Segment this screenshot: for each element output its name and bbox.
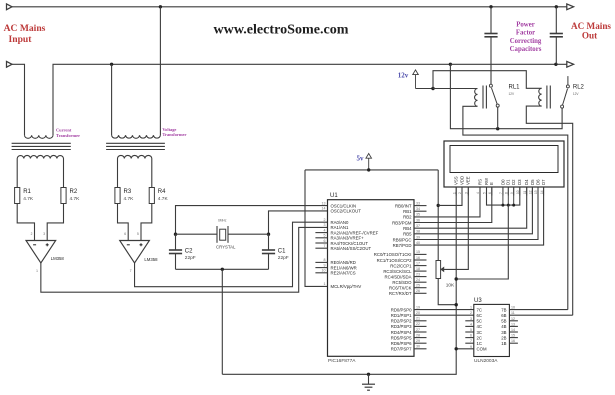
svg-text:OSC1/CLKIN: OSC1/CLKIN: [331, 203, 357, 208]
svg-text:AC Mains: AC Mains: [571, 21, 611, 31]
svg-text:19: 19: [416, 305, 420, 309]
svg-text:RB6/PGC: RB6/PGC: [393, 237, 412, 242]
power symbol 12v: [413, 70, 419, 75]
svg-text:6C: 6C: [477, 313, 483, 318]
wire: RB5 to LCD D5: [414, 187, 532, 234]
U1 pin 7 RA5/AN4/SS/C2OUT: [315, 247, 327, 249]
svg-text:22pF: 22pF: [278, 255, 289, 261]
svg-text:RD7/PSP7: RD7/PSP7: [391, 347, 412, 352]
U1 pin 24 RC5/SDO: [414, 281, 427, 283]
LCD module LM016L body: [444, 141, 564, 187]
wire: voltage transformer primary left drop: [111, 64, 113, 135]
U3 pin 12 5B: [509, 320, 518, 322]
junction ground vertical / preset bottom: [455, 303, 458, 306]
wire: RL2 fixed contact stub: [567, 76, 569, 85]
LCD pin 8 D1: [507, 187, 509, 196]
U1 pin 26 RC7/RX/DT: [414, 292, 427, 294]
svg-text:14: 14: [511, 328, 515, 332]
transformer TR2 core: [106, 142, 165, 144]
svg-text:Power: Power: [516, 21, 535, 28]
op-amp U2:A LM358: [26, 241, 56, 264]
wire: R2 bottom to op-amp U2:A non-inverting input: [47, 204, 63, 241]
wire: C3 bottom to RL1 fixed contact: [490, 37, 492, 85]
svg-text:11: 11: [523, 190, 527, 194]
svg-text:6B: 6B: [501, 313, 506, 318]
LCD pin 5 RW: [486, 187, 488, 196]
U3 pin 13 4B: [509, 325, 518, 327]
svg-text:14: 14: [540, 190, 544, 194]
junction neutral rail / C4 bottom: [554, 63, 557, 66]
svg-text:4.7K: 4.7K: [23, 196, 34, 202]
wire: RD1 to ULN2003A 6C: [414, 314, 474, 316]
svg-text:RC7/RX/DT: RC7/RX/DT: [389, 291, 412, 296]
U1 pin 17 RC2/CCP1: [414, 265, 427, 267]
svg-text:40: 40: [416, 241, 420, 245]
LCD pin 1 VSS: [455, 187, 457, 196]
svg-text:28: 28: [416, 333, 420, 337]
wire: RD0 to ULN2003A 7C: [414, 309, 474, 311]
wire: crystal ground drop to bottom rail: [221, 269, 223, 374]
junction 5v node: [367, 168, 370, 171]
svg-text:12V: 12V: [509, 92, 516, 96]
svg-text:7: 7: [130, 269, 132, 273]
U1 pin 28 RD5/PSP5: [414, 337, 427, 339]
svg-text:12: 12: [511, 317, 515, 321]
svg-text:RC6/TX/CK: RC6/TX/CK: [389, 286, 412, 291]
svg-text:RC5/SDO: RC5/SDO: [392, 280, 412, 285]
wire: crystal right lead: [228, 233, 268, 235]
svg-text:7B: 7B: [501, 307, 506, 312]
wire: strap descent to ground: [456, 205, 508, 279]
svg-text:30: 30: [416, 345, 420, 349]
svg-text:1B: 1B: [501, 341, 506, 346]
LCD pin 3 VEE: [467, 187, 469, 196]
svg-text:33: 33: [416, 201, 420, 205]
relay RL2 coil: [539, 88, 542, 106]
U1 pin 21 RD2/PSP2: [414, 320, 427, 322]
svg-text:VDD: VDD: [459, 176, 464, 185]
svg-text:RC0/T1OSO/T1CKI: RC0/T1OSO/T1CKI: [374, 252, 412, 257]
wire: OSC2 (PIC pin14) to crystal right / C1: [269, 211, 328, 234]
U1 pin 18 RC3/SCK/SCL: [414, 270, 427, 272]
wire: AC live top rail: [12, 6, 567, 8]
svg-text:Input: Input: [9, 34, 33, 45]
svg-text:24: 24: [416, 278, 420, 282]
svg-text:PIC16F877A: PIC16F877A: [328, 358, 356, 364]
capacitor C1 22pF: [268, 234, 270, 250]
svg-text:11: 11: [511, 311, 515, 315]
transformer TR1 (current transformer) primary: [25, 135, 53, 138]
svg-text:15: 15: [416, 250, 420, 254]
wire: RL1 coil drive to ULN2003A 7B: [463, 106, 568, 309]
svg-text:5: 5: [324, 234, 326, 238]
wire: 12v feed: [416, 88, 434, 90]
svg-text:2: 2: [458, 192, 462, 194]
input terminal T2 (AC neutral): [7, 61, 13, 67]
svg-text:E: E: [489, 182, 494, 185]
svg-text:5C: 5C: [477, 319, 483, 324]
svg-text:4.7K: 4.7K: [124, 196, 135, 202]
wire: RL1 common contact to neutral riser: [450, 64, 562, 128]
svg-text:RB3/PGM: RB3/PGM: [392, 220, 412, 225]
svg-text:12v: 12v: [398, 71, 409, 79]
svg-text:RB2: RB2: [403, 215, 412, 220]
wire: LCD RW/D0-D3 ground strap: [487, 187, 520, 205]
U3 pin 5 3C: [465, 331, 474, 333]
svg-text:2: 2: [324, 218, 326, 222]
svg-text:R2: R2: [70, 189, 78, 195]
relay RL2 switch: [566, 85, 569, 88]
junction neutral rail / voltage transformer primary left: [110, 63, 113, 66]
svg-text:C1: C1: [278, 248, 286, 254]
svg-text:D7: D7: [541, 179, 546, 185]
relay RL1 switch: [489, 84, 492, 87]
svg-text:4.7K: 4.7K: [70, 196, 81, 202]
svg-text:6: 6: [324, 239, 326, 243]
junction strap D2: [512, 204, 515, 207]
svg-text:LM358: LM358: [144, 257, 158, 262]
LCD pin 6 E: [491, 187, 493, 196]
wire: VDD link: [438, 187, 462, 205]
U1 pin 33 RB0/INT: [414, 205, 427, 207]
svg-text:D2: D2: [511, 179, 516, 185]
U1 pin 25 RC6/TX/CK: [414, 287, 427, 289]
svg-text:RA5/AN4/SS/C2OUT: RA5/AN4/SS/C2OUT: [331, 246, 372, 251]
svg-text:2C: 2C: [477, 335, 483, 340]
junction ground symbol: [367, 373, 370, 376]
svg-text:7: 7: [324, 244, 326, 248]
svg-text:Transformer: Transformer: [162, 132, 186, 137]
U3 pin 7 1C: [465, 342, 474, 344]
op-amp U2:B LM358: [120, 241, 150, 264]
capacitor C3 (power factor correcting, left): [490, 7, 492, 34]
wire: RB7 to LCD D7: [414, 187, 544, 245]
wire: current transformer primary right up to neutral rail: [53, 64, 450, 135]
svg-text:1: 1: [470, 306, 472, 310]
U3 pin 6 2C: [465, 337, 474, 339]
LCD pin 9 D2: [513, 187, 515, 196]
svg-text:C2: C2: [185, 248, 193, 254]
svg-text:CRYSTAL: CRYSTAL: [216, 244, 236, 249]
svg-text:AC Mains: AC Mains: [4, 23, 46, 34]
wire: RB2 to LCD RS: [414, 187, 480, 217]
svg-text:13: 13: [322, 201, 326, 205]
svg-text:2: 2: [31, 232, 33, 236]
svg-text:U3: U3: [474, 298, 482, 304]
wire: C4 bottom to neutral rail: [555, 37, 557, 65]
svg-text:17: 17: [416, 261, 420, 265]
wire: 5v rail: [305, 169, 438, 171]
U1 pin 8 RE0/AN5/RD: [315, 261, 327, 263]
wire: neutral to current transformer primary left: [12, 64, 25, 135]
relay RL1 coil: [475, 89, 478, 107]
resistor R2 4.7K: [61, 188, 66, 204]
wire: neutral rail right section: [450, 63, 566, 65]
wire: 5v to PIC MCLR (pin1): [305, 170, 328, 287]
wire: ULN2003A 7B to RL1 drive riser: [509, 309, 567, 311]
svg-text:Correcting: Correcting: [510, 38, 542, 45]
wire: op-amp U2:A output to PIC RA1: [41, 227, 328, 292]
U3 pin 3 5C: [465, 320, 474, 322]
wire: RB3 to LCD E: [414, 187, 492, 223]
LCD pin 7 D0: [502, 187, 504, 196]
svg-text:25: 25: [416, 284, 420, 288]
wire: 12v branch to RL2 coil: [433, 71, 542, 89]
wire: crystal left lead: [176, 233, 217, 235]
svg-text:Factor: Factor: [516, 30, 535, 37]
svg-text:VSS: VSS: [454, 176, 459, 185]
resistor R1 4.7K: [15, 188, 20, 204]
capacitor C2 22pF: [175, 234, 177, 250]
svg-text:10: 10: [511, 306, 515, 310]
power symbol 5v: [366, 154, 372, 159]
U1 pin 23 RC4/SDI/SDA: [414, 276, 427, 278]
svg-text:10: 10: [322, 269, 326, 273]
crystal X1: [216, 226, 218, 243]
U1 pin 9 RE1/AN6/WR: [315, 267, 327, 269]
wire: op-amp U2:B output to PIC RA0: [135, 222, 328, 287]
junction live rail / PFC capacitor C4: [555, 5, 558, 8]
transformer TR2 secondary: [118, 155, 152, 187]
junction ground vertical / strap: [455, 277, 458, 280]
U1 pin 5 RA3/AN3/VREF+: [315, 237, 327, 239]
svg-text:35: 35: [416, 213, 420, 217]
wire: 5v drop to LCD VDD / preset top: [437, 170, 439, 261]
svg-text:23: 23: [416, 272, 420, 276]
svg-text:22pF: 22pF: [185, 255, 196, 261]
U3 pin 14 3B: [509, 331, 518, 333]
wire: 12v to RL1 coil: [433, 88, 478, 90]
svg-text:MCLR/Vpp/THV: MCLR/Vpp/THV: [331, 284, 362, 289]
wire: bottom ground rail: [222, 187, 456, 374]
svg-text:RC2/CCP1: RC2/CCP1: [390, 263, 412, 268]
svg-text:D0: D0: [500, 179, 505, 185]
microcontroller U1 PIC16F877A body: [328, 200, 415, 357]
svg-text:3: 3: [43, 232, 45, 236]
svg-text:18: 18: [416, 267, 420, 271]
LCD pin 13 D6: [537, 187, 539, 196]
U1 pin 27 RD4/PSP4: [414, 331, 427, 333]
svg-text:16: 16: [416, 256, 420, 260]
svg-text:12V: 12V: [573, 92, 580, 96]
svg-text:RD1/PSP1: RD1/PSP1: [391, 313, 412, 318]
svg-text:RB0/INT: RB0/INT: [395, 203, 412, 208]
svg-text:D1: D1: [506, 179, 511, 185]
transformer TR2 (voltage transformer) primary: [112, 135, 161, 138]
svg-text:4C: 4C: [477, 324, 483, 329]
svg-text:21: 21: [416, 317, 420, 321]
U1 pin 29 RD6/PSP6: [414, 342, 427, 344]
wire: RL2 coil drive to ULN2003A 6B: [526, 106, 572, 315]
svg-text:D5: D5: [530, 179, 535, 185]
junction crystal left node: [174, 233, 177, 236]
wire: C2/C1 ground link: [176, 268, 269, 270]
svg-text:16: 16: [511, 339, 515, 343]
svg-text:4.7K: 4.7K: [158, 196, 169, 202]
LCD pin 10 D3: [519, 187, 521, 196]
svg-text:RD3/PSP3: RD3/PSP3: [391, 324, 412, 329]
svg-text:13: 13: [534, 190, 538, 194]
svg-text:2B: 2B: [501, 335, 506, 340]
svg-text:RB4: RB4: [403, 226, 412, 231]
svg-text:ULN2003A: ULN2003A: [474, 358, 498, 364]
U1 pin 22 RD3/PSP3: [414, 325, 427, 327]
ground: [368, 374, 370, 384]
capacitor C4 (power factor correcting, right): [555, 7, 557, 34]
svg-text:3B: 3B: [501, 330, 506, 335]
svg-text:D6: D6: [535, 179, 540, 185]
svg-text:29: 29: [416, 339, 420, 343]
output terminal arrow (AC neutral out): [567, 61, 574, 67]
junction strap D0: [501, 204, 504, 207]
svg-text:OSC2/CLKOUT: OSC2/CLKOUT: [331, 209, 362, 214]
svg-text:7: 7: [470, 339, 472, 343]
svg-text:VEE: VEE: [466, 176, 471, 185]
junction ground vertical / COM: [455, 347, 458, 350]
svg-text:5: 5: [470, 328, 472, 332]
svg-text:D4: D4: [524, 179, 529, 185]
svg-text:RC3/SCK/SCL: RC3/SCK/SCL: [383, 269, 412, 274]
junction crystal right node: [267, 233, 270, 236]
svg-text:3: 3: [470, 317, 472, 321]
junction RL1 pivot on commons line: [496, 127, 499, 130]
svg-text:COM: COM: [477, 347, 487, 352]
svg-text:RB1: RB1: [403, 209, 412, 214]
svg-text:9: 9: [470, 345, 472, 349]
svg-text:D3: D3: [517, 179, 522, 185]
svg-text:4B: 4B: [501, 324, 506, 329]
svg-text:36: 36: [416, 218, 420, 222]
U1 pin 4 RA2/AN2/VREF-/CVREF: [315, 232, 327, 234]
wire: RB6 to LCD D6: [414, 187, 538, 240]
transformer TR1 secondary: [17, 155, 63, 187]
wire: R4 bottom to op-amp U2:B non-inverting input: [141, 204, 152, 241]
LCD pin 2 VDD: [461, 187, 463, 196]
svg-text:RB7/PGD: RB7/PGD: [393, 243, 412, 248]
svg-text:RE2/AN7/CS: RE2/AN7/CS: [331, 271, 356, 276]
junction 12v node: [431, 87, 434, 90]
svg-text:RC4/SDI/SDA: RC4/SDI/SDA: [385, 274, 412, 279]
U3 pin 4 4C: [465, 325, 474, 327]
svg-text:7C: 7C: [477, 307, 483, 312]
svg-text:14: 14: [322, 207, 326, 211]
svg-text:RD2/PSP2: RD2/PSP2: [391, 319, 412, 324]
junction strap D1: [507, 204, 510, 207]
svg-text:RD5/PSP5: RD5/PSP5: [391, 335, 412, 340]
svg-text:5B: 5B: [501, 319, 506, 324]
svg-text:RB5: RB5: [403, 232, 412, 237]
svg-text:4: 4: [470, 322, 472, 326]
svg-text:Transformer: Transformer: [56, 133, 80, 138]
svg-text:26: 26: [416, 289, 420, 293]
svg-text:RD4/PSP4: RD4/PSP4: [391, 330, 412, 335]
svg-text:10K: 10K: [446, 282, 455, 288]
svg-text:1C: 1C: [477, 341, 483, 346]
svg-text:1: 1: [452, 192, 456, 194]
svg-text:37: 37: [416, 224, 420, 228]
svg-text:34: 34: [416, 207, 420, 211]
svg-text:1: 1: [36, 269, 38, 273]
input terminal T1 (AC live): [7, 4, 13, 10]
svg-text:39: 39: [416, 235, 420, 239]
svg-text:6MHz: 6MHz: [218, 219, 227, 223]
U1 pin 6 RA4/T0CKI/C1OUT: [315, 242, 327, 244]
svg-text:22: 22: [416, 322, 420, 326]
svg-text:1: 1: [324, 282, 326, 286]
U3 pin 15 2B: [509, 337, 518, 339]
svg-text:6: 6: [124, 232, 126, 236]
LCD pin 4 RS: [479, 187, 481, 196]
svg-text:38: 38: [416, 230, 420, 234]
svg-text:LM358: LM358: [51, 256, 65, 261]
wire: R3 bottom to op-amp U2:B inverting input: [118, 204, 129, 241]
svg-text:6: 6: [470, 334, 472, 338]
svg-text:R1: R1: [23, 189, 31, 195]
LCD pin 12 D5: [531, 187, 533, 196]
svg-text:RD0/PSP0: RD0/PSP0: [391, 307, 412, 312]
junction crystal ground node: [221, 268, 224, 271]
svg-text:6: 6: [488, 192, 492, 194]
wire: OSC1 (PIC pin13) to crystal left / C2: [176, 206, 328, 235]
LCD pin 11 D4: [526, 187, 528, 196]
resistor R4 4.7K: [149, 188, 154, 204]
transformer TR1 core: [12, 142, 71, 144]
wire: COM to ground vertical: [456, 348, 474, 350]
wire: live rail riser to voltage transformer primary right: [159, 7, 161, 135]
svg-text:13: 13: [511, 322, 515, 326]
junction neutral rail / relay commons riser: [449, 63, 452, 66]
junction live rail / PFC capacitor C3: [489, 5, 492, 8]
svg-text:8: 8: [324, 258, 326, 262]
driver U3 ULN2003A body: [474, 304, 510, 356]
svg-text:5: 5: [137, 232, 139, 236]
preset RV1 wiper to LCD VEE: [444, 187, 469, 269]
wire: ULN2003A 6B to RL2 drive riser: [509, 314, 572, 316]
svg-text:12: 12: [529, 190, 533, 194]
svg-text:www.electroSome.com: www.electroSome.com: [214, 23, 349, 38]
junction 5v / LCD VDD: [437, 204, 440, 207]
svg-text:U1: U1: [330, 193, 338, 199]
svg-text:Capacitors: Capacitors: [510, 46, 542, 53]
junction on live rail at voltage transformer riser: [159, 5, 162, 8]
U3 pin 16 1B: [509, 342, 518, 344]
svg-text:4: 4: [324, 228, 326, 232]
wire: RL1 pivot drop: [497, 107, 499, 129]
svg-text:20: 20: [416, 311, 420, 315]
LCD pin 14 D7: [543, 187, 545, 196]
svg-text:RC1/T1OSI/CCP2: RC1/T1OSI/CCP2: [377, 258, 412, 263]
wire: RB4 to LCD D4: [414, 187, 527, 228]
svg-text:27: 27: [416, 328, 420, 332]
U1 pin 30 RD7/PSP7: [414, 348, 427, 350]
svg-text:15: 15: [511, 334, 515, 338]
svg-text:3C: 3C: [477, 330, 483, 335]
svg-text:5v: 5v: [357, 155, 365, 163]
U1 pin 15 RC0/T1OSO/T1CKI: [414, 253, 427, 255]
U1 pin 10 RE2/AN7/CS: [315, 272, 327, 274]
U1 pin 16 RC1/T1OSI/CCP2: [414, 259, 427, 261]
svg-text:3: 3: [324, 223, 326, 227]
wire: preset bottom to ground: [438, 279, 456, 305]
wire: R1 bottom to op-amp U2:A inverting input: [17, 204, 34, 241]
svg-text:RW: RW: [484, 177, 489, 185]
svg-text:9: 9: [324, 263, 326, 267]
svg-text:4: 4: [476, 192, 480, 194]
U1 pin 34 RB1: [414, 210, 427, 212]
svg-text:RL1: RL1: [509, 85, 521, 91]
svg-text:RS: RS: [477, 179, 482, 185]
svg-text:RD6/PSP6: RD6/PSP6: [391, 341, 412, 346]
